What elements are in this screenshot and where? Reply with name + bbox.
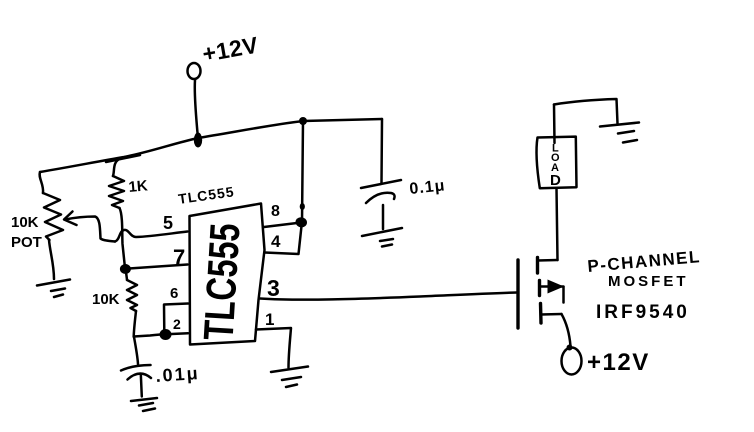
svg-text:5: 5 — [163, 213, 173, 233]
svg-text:8: 8 — [271, 203, 280, 220]
svg-text:10K: 10K — [92, 291, 120, 308]
svg-text:POT: POT — [11, 234, 42, 251]
svg-text:6: 6 — [170, 285, 178, 302]
svg-text:TLC555: TLC555 — [195, 222, 249, 342]
svg-text:1: 1 — [265, 310, 274, 329]
svg-text:MOSFET: MOSFET — [608, 273, 689, 290]
svg-text:10K: 10K — [11, 214, 39, 231]
svg-text:D: D — [550, 172, 561, 189]
svg-text:+12V: +12V — [587, 349, 650, 376]
svg-text:IRF9540: IRF9540 — [596, 302, 690, 323]
svg-text:1K: 1K — [128, 177, 149, 196]
svg-text:.01μ: .01μ — [155, 363, 200, 386]
svg-text:3: 3 — [267, 275, 280, 301]
svg-text:2: 2 — [173, 316, 181, 332]
svg-text:4: 4 — [271, 232, 281, 251]
